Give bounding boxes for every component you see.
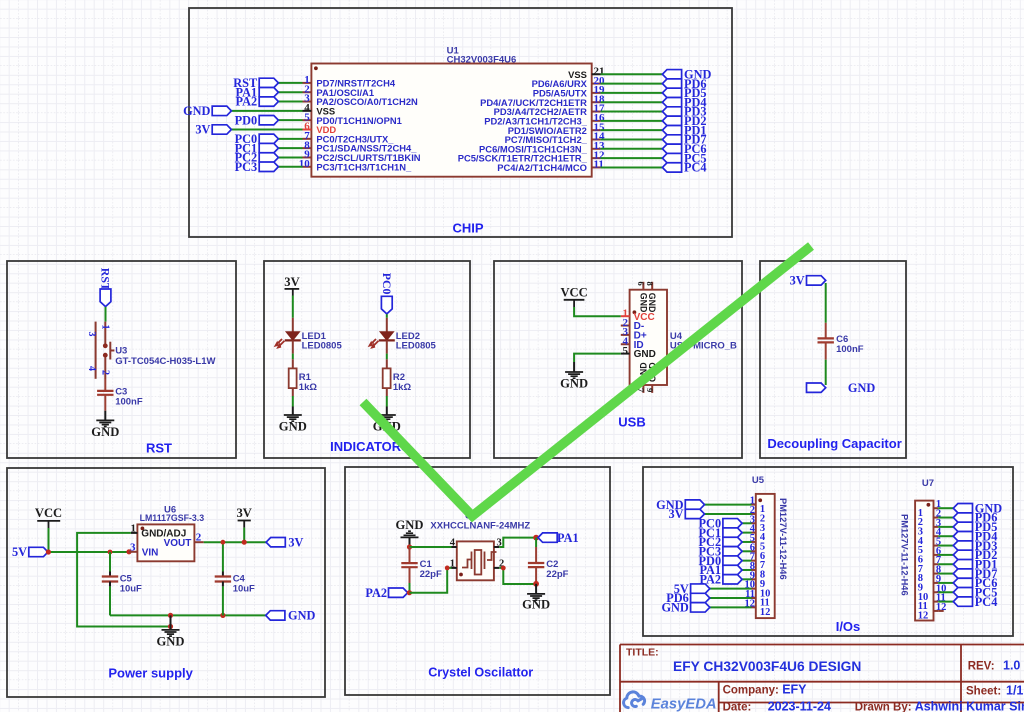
- junction: [46, 549, 51, 554]
- U7 pin 11: [934, 601, 939, 603]
- wire PC2 to U1 pin 9: [278, 156, 302, 158]
- Crystal Oscillator block frame: [345, 467, 610, 695]
- port flag GND: [266, 611, 285, 620]
- U7 pin 2: [934, 517, 939, 519]
- svg-text:PC3/T1CH3/T1CH1N_: PC3/T1CH3/T1CH1N_: [316, 161, 412, 172]
- U7 pin 7: [934, 563, 939, 565]
- junction pin2: [501, 566, 506, 571]
- U1 pin-1 marker dot: [314, 66, 318, 70]
- U4 bottom pin 9: [651, 385, 653, 393]
- svg-text:GND: GND: [183, 104, 210, 118]
- LED LED1 LED0805: [292, 318, 294, 332]
- svg-text:EFY CH32V003F4U6 DESIGN: EFY CH32V003F4U6 DESIGN: [673, 659, 861, 674]
- svg-text:GND: GND: [157, 635, 185, 649]
- op-amp U1 chip body CH32V003F4U6: [311, 64, 591, 177]
- connector U4 USB-MICRO_B body: [630, 290, 667, 385]
- port flag 5V: [691, 584, 710, 593]
- port flag GND: [685, 500, 704, 509]
- port flag PD6: [691, 593, 710, 602]
- svg-text:3V: 3V: [195, 123, 210, 137]
- wire VOUT rail: [204, 541, 266, 543]
- svg-text:GND: GND: [647, 293, 657, 313]
- svg-text:4: 4: [86, 366, 97, 371]
- wire C3 to ground: [104, 395, 106, 411]
- title block border: [620, 645, 1024, 713]
- U5 pin 2: [752, 513, 756, 515]
- wire GND to U5 pin 1: [705, 504, 752, 506]
- svg-text:LM1117GSF-3.3: LM1117GSF-3.3: [140, 513, 205, 523]
- wire U7 pin 4 to PD4: [938, 535, 953, 537]
- U4 top pin 8: [651, 282, 653, 290]
- wire U1 pin 18 to PD4: [601, 101, 663, 103]
- wire PA2 to U1 pin 3: [278, 101, 302, 103]
- wire PC1 to U1 pin 8: [278, 147, 302, 149]
- capacitor C5 10uF: [109, 552, 111, 572]
- svg-text:1.0: 1.0: [1003, 659, 1020, 673]
- port flag GND: [691, 603, 710, 612]
- U1 pin 4 VSS: [303, 110, 312, 112]
- svg-text:Crystel Oscilattor: Crystel Oscilattor: [428, 665, 533, 679]
- U1 pin 13 PC6/MOSI/T1CH1CH3N_: [592, 148, 601, 150]
- U1 pin 20 PD6/A6/URX: [592, 83, 601, 85]
- U7 pin 9: [934, 582, 939, 584]
- svg-text:10uF: 10uF: [233, 584, 255, 595]
- wire 3V to U1 pin 6: [231, 129, 302, 131]
- U1 pin 12 PC5/SCK/T1ETR/T2CH1ETR_: [592, 157, 601, 159]
- U5 pin 8: [752, 569, 756, 571]
- wire U7 pin 5 to PD3: [938, 545, 953, 547]
- capacitor C1 22pF: [409, 547, 411, 563]
- port flag PC2: [723, 537, 742, 546]
- U5 pin 9: [752, 578, 756, 580]
- svg-text:Sheet:: Sheet:: [966, 686, 1001, 698]
- U1 pin 16 PD2/A3/T1CH1/T2CH3_: [592, 120, 601, 122]
- wire PD6 to U5 pin 11: [710, 597, 752, 599]
- port flag PC2: [259, 153, 278, 162]
- svg-text:22pF: 22pF: [420, 569, 442, 580]
- svg-text:LED0805: LED0805: [396, 341, 437, 352]
- wire R2 to ground: [386, 388, 388, 396]
- wire U6 pin1 to ground rail: [77, 533, 170, 627]
- wire 5V to U6 VIN: [48, 551, 129, 553]
- wire U2 pin 2 to C2/GND: [499, 568, 536, 584]
- ground: [96, 420, 114, 426]
- wire GND to U5 pin 12: [710, 606, 752, 608]
- wire PC0 to U1 pin 7: [278, 138, 302, 140]
- port flag PC0: [259, 134, 278, 143]
- U7 pin 12: [934, 610, 939, 612]
- wire VCC to U4 pin 1: [574, 307, 621, 316]
- svg-text:2: 2: [99, 370, 110, 375]
- svg-text:GND: GND: [279, 420, 307, 434]
- port flag PA2: [389, 588, 408, 597]
- port flag PC0: [723, 519, 742, 528]
- U1 pin 6 VDD: [303, 129, 312, 131]
- U7 pin 1: [934, 507, 939, 509]
- port flag PC5: [953, 588, 972, 597]
- wire PC2 to U5 pin 5: [742, 541, 751, 543]
- svg-text:GND: GND: [560, 377, 588, 391]
- U2 pin 2: [494, 567, 499, 569]
- LED LED2 LED0805: [386, 318, 388, 332]
- port flag GND: [212, 106, 231, 115]
- port flag PD7: [953, 569, 972, 578]
- svg-text:1: 1: [99, 325, 110, 330]
- svg-text:PC4/A2/T1CH4/MCO: PC4/A2/T1CH4/MCO: [497, 162, 587, 173]
- port flag PD0: [259, 115, 278, 124]
- wire U1 pin 15 to PD1: [601, 129, 663, 131]
- port flag PA2: [259, 97, 278, 106]
- port flag PC1: [723, 528, 742, 537]
- crystal U2 XXHCCLNANF-24MHZ body: [457, 541, 494, 580]
- port flag PD5: [953, 522, 972, 531]
- U6 pin 3 VIN: [129, 551, 137, 553]
- wire U2 pin 3 to PA1: [499, 538, 536, 547]
- U1 pin 7 PC0/T2CH3/UTX_: [303, 138, 312, 140]
- wire U7 pin 1 to GND: [938, 507, 953, 509]
- capacitor C4 10uF: [222, 542, 224, 571]
- svg-text:VCC: VCC: [35, 506, 62, 520]
- op-amp U6 LM1117GSF-3.3: [137, 524, 194, 561]
- port flag 3V: [212, 125, 231, 134]
- port flag 3V: [685, 509, 704, 518]
- U2 pin 1: [452, 567, 457, 569]
- svg-text:PM127V-11-12-H46: PM127V-11-12-H46: [778, 498, 788, 580]
- svg-text:Drawn By:: Drawn By:: [855, 701, 912, 712]
- U7 pin 8: [934, 573, 939, 575]
- svg-text:5: 5: [623, 345, 629, 357]
- svg-text:3V: 3V: [790, 274, 805, 288]
- port flag PD1: [953, 560, 972, 569]
- port flag GND: [807, 383, 826, 392]
- svg-text:RST: RST: [146, 441, 172, 456]
- capacitor C2 22pF: [535, 538, 537, 547]
- U1 pin 14 PC7/MISO/T1CH2_: [592, 138, 601, 140]
- wire U1 pin 14 to PD7: [601, 138, 663, 140]
- wire ground rail: [110, 614, 266, 616]
- wire U7 pin 7 to PD1: [938, 563, 953, 565]
- U4 bottom pin 7: [642, 385, 644, 393]
- U7 pin 12 stub: [938, 610, 944, 612]
- svg-text:RST: RST: [99, 268, 113, 291]
- port flag 3V: [266, 538, 285, 547]
- port flag PA1: [723, 565, 742, 574]
- U1 pin 5 PD0/T1CH1N/OPN1: [303, 119, 312, 121]
- svg-text:22pF: 22pF: [546, 569, 568, 580]
- junction rail-C4: [220, 613, 225, 618]
- svg-text:USB: USB: [618, 415, 645, 430]
- port flag PC1: [259, 143, 278, 152]
- U1 pin 17 PD3/A4/T2CH2/AETR: [592, 111, 601, 113]
- wire U1 pin 16 to PD2: [601, 120, 663, 122]
- svg-text:11: 11: [594, 159, 604, 171]
- svg-text:1: 1: [131, 522, 137, 534]
- resistor R2 1k: [383, 368, 391, 388]
- svg-text:2023-11-24: 2023-11-24: [768, 699, 831, 712]
- U1 pin 3 PA2/OSCO/A0/T1CH2N: [303, 101, 312, 103]
- svg-text:VCC: VCC: [560, 285, 587, 299]
- port flag PD3: [953, 541, 972, 550]
- I/Os block frame: [643, 467, 1013, 636]
- U7 pin 6: [934, 554, 939, 556]
- port flag PC3: [259, 162, 278, 171]
- svg-text:PD0: PD0: [235, 113, 258, 127]
- svg-text:12: 12: [760, 607, 771, 618]
- svg-text:PC4: PC4: [684, 161, 707, 175]
- svg-text:GND: GND: [91, 425, 119, 439]
- wire U7 pin 10 to PC5: [938, 591, 953, 593]
- port flag PD2: [953, 550, 972, 559]
- port flag PA1: [538, 533, 557, 542]
- wire C6 to GND flag: [825, 342, 827, 359]
- wire U7 pin 2 to PD6: [938, 517, 953, 519]
- U2 crystal glyph: [462, 552, 497, 570]
- svg-text:GT-TC054C-H035-L1W: GT-TC054C-H035-L1W: [115, 356, 215, 367]
- svg-text:I/Os: I/Os: [836, 619, 861, 634]
- resistor R1 1k: [289, 368, 297, 388]
- port flag RST: [259, 78, 278, 87]
- svg-text:8: 8: [645, 282, 655, 286]
- wire U1 pin 19 to PD5: [601, 92, 663, 94]
- port flag PC4: [662, 163, 681, 172]
- svg-text:100nF: 100nF: [115, 397, 143, 408]
- svg-text:PC4: PC4: [975, 595, 998, 609]
- capacitor C6 100nF: [818, 337, 834, 339]
- svg-text:GND: GND: [638, 293, 648, 313]
- U6 pin 2 VOUT: [194, 541, 203, 543]
- port flag PD6: [662, 79, 681, 88]
- svg-text:GND: GND: [522, 598, 550, 612]
- svg-text:3V: 3V: [236, 506, 251, 520]
- ground: [535, 584, 537, 594]
- svg-text:PM127V-11-12-H46: PM127V-11-12-H46: [899, 514, 909, 596]
- svg-text:3: 3: [86, 332, 97, 337]
- wire PA1 to U1 pin 2: [278, 91, 302, 93]
- U1 pin 2 PA1/OSCI/A1: [303, 91, 312, 93]
- svg-text:EasyEDA: EasyEDA: [651, 697, 717, 712]
- Decoupling Capacitor block frame: [760, 261, 906, 458]
- wire U7 pin 11 to PC4: [938, 601, 953, 603]
- port flag PD7: [662, 135, 681, 144]
- svg-text:100nF: 100nF: [836, 344, 864, 355]
- wire U1 pin 20 to PD6: [601, 83, 663, 85]
- wire U7 pin 6 to PD2: [938, 554, 953, 556]
- U4 pin 4 ID: [621, 343, 630, 345]
- svg-text:VIN: VIN: [142, 548, 159, 559]
- port flag PD0: [723, 556, 742, 565]
- junction PA2-C1: [407, 590, 412, 595]
- wire PC3 to U5 pin 6: [742, 550, 751, 552]
- Power supply block frame: [7, 468, 325, 697]
- junction pin1: [445, 566, 450, 571]
- wire GND to U1 pin 4: [231, 110, 302, 112]
- transistor U3 push button GT-TC054C-H035-L1W: [104, 322, 106, 344]
- INDICATORS block frame: [264, 261, 470, 458]
- U5 pin 11: [752, 597, 756, 599]
- wire RST to U1 pin 1: [278, 82, 302, 84]
- svg-text:U7: U7: [922, 478, 934, 489]
- U4 pin 2 D-: [621, 325, 630, 327]
- svg-text:1kΩ: 1kΩ: [299, 382, 318, 393]
- capacitor C3 100nF: [97, 390, 113, 392]
- port flag PC6: [662, 144, 681, 153]
- wire PC0 to U5 pin 3: [742, 522, 751, 524]
- wire U7 pin 8 to PD7: [938, 573, 953, 575]
- port flag PD6: [953, 513, 972, 522]
- svg-text:9: 9: [645, 388, 655, 392]
- svg-text:10uF: 10uF: [120, 584, 142, 595]
- ground: [170, 615, 172, 630]
- svg-text:CHIP: CHIP: [452, 221, 483, 236]
- svg-text:1/1: 1/1: [1006, 684, 1023, 698]
- port flag PC4: [953, 597, 972, 606]
- wire 3V to U5 pin 2: [705, 513, 752, 515]
- junction C4 top: [221, 540, 226, 545]
- U5 pin 5: [752, 541, 756, 543]
- wire 3V to LED1: [292, 296, 294, 318]
- svg-text:XXHCCLNANF-24MHZ: XXHCCLNANF-24MHZ: [430, 521, 530, 532]
- U7 pin 5: [934, 545, 939, 547]
- svg-text:Date:: Date:: [723, 701, 752, 712]
- port flag PD4: [953, 532, 972, 541]
- wire PC3 to U1 pin 10: [278, 166, 302, 168]
- svg-text:PC0: PC0: [380, 273, 394, 295]
- wire PD0 to U5 pin 7: [742, 560, 751, 562]
- wire R1 to ground: [292, 388, 294, 396]
- svg-text:3V: 3V: [668, 507, 683, 521]
- U5 pin 7: [752, 560, 756, 562]
- U4 top pin 6: [642, 282, 644, 290]
- U4 pin 1 VCC: [621, 315, 630, 317]
- U1 pin 21 VSS: [592, 73, 601, 75]
- U2 pin 3: [494, 546, 499, 548]
- U1 pin 9 PC2/SCL/URTS/T1BKIN: [303, 156, 312, 158]
- svg-text:GND: GND: [661, 601, 688, 615]
- port flag GND: [953, 504, 972, 513]
- svg-text:5V: 5V: [12, 545, 27, 559]
- U7 pin 3: [934, 526, 939, 528]
- svg-text:GND: GND: [848, 381, 875, 395]
- U1 pin 11 PC4/A2/T1CH4/MCO: [592, 166, 601, 168]
- USB block frame: [494, 261, 742, 458]
- svg-text:GND: GND: [634, 349, 656, 360]
- EasyEDA logo cloud: [624, 692, 645, 708]
- junction C5 tap: [108, 550, 113, 555]
- svg-text:2: 2: [196, 532, 202, 544]
- junction gnd stem: [168, 624, 173, 629]
- U4 pin 3 D+: [621, 334, 630, 336]
- U1 pin 15 PD1/SWIO/AETR2: [592, 129, 601, 131]
- U5 pin 10: [752, 588, 756, 590]
- wire VCC stem: [48, 528, 50, 552]
- wire U1 pin 17 to PD3: [601, 111, 663, 113]
- wire U1 pin 11 to PC4: [601, 166, 663, 168]
- port flag 5V: [29, 547, 48, 556]
- svg-text:Ashwini Kumar Sinha: Ashwini Kumar Sinha: [915, 699, 1024, 712]
- svg-text:4: 4: [450, 538, 456, 549]
- wire U4 pin 5 to ground: [574, 354, 621, 362]
- svg-text:GND: GND: [288, 609, 315, 623]
- U1 pin 19 PD5/A5/UTX: [592, 92, 601, 94]
- junction VIN: [126, 549, 131, 554]
- U4 pin 5 GND: [621, 353, 630, 355]
- svg-text:1kΩ: 1kΩ: [393, 382, 412, 393]
- svg-text:10: 10: [299, 158, 311, 170]
- CHIP block frame: [189, 8, 732, 237]
- port flag PD3: [662, 107, 681, 116]
- wire PA2 to U5 pin 9: [742, 578, 751, 580]
- svg-text:Decoupling Capacitor: Decoupling Capacitor: [767, 436, 901, 451]
- junction PA1: [533, 535, 539, 541]
- svg-text:PA1: PA1: [557, 531, 579, 545]
- wire 5V to U5 pin 10: [710, 588, 752, 590]
- RST block frame: [7, 261, 236, 458]
- U1 pin 1 PD7/NRST/T2CH4: [303, 82, 312, 84]
- U6 pin 1 GND/ADJ: [131, 532, 138, 534]
- U1 pin 8 PC1/SDA/NSS/T2CH4_: [303, 147, 312, 149]
- svg-text:6: 6: [636, 282, 646, 286]
- green checkmark overlay: [363, 246, 811, 516]
- wire PA2 to U2 pin 1: [409, 568, 451, 593]
- ground: [284, 415, 302, 421]
- svg-text:LED0805: LED0805: [302, 341, 343, 352]
- svg-text:GND: GND: [396, 518, 424, 532]
- wire U1 pin 12 to PC5: [601, 157, 663, 159]
- ground: [565, 372, 583, 378]
- wire GND to U2 pin 4: [410, 546, 452, 548]
- svg-text:U5: U5: [752, 475, 765, 486]
- U5 pin 4: [752, 532, 756, 534]
- wire U3 to C3: [104, 379, 106, 391]
- wire 3V to C6: [825, 283, 827, 323]
- port flag PA1: [259, 88, 278, 97]
- svg-text:Power supply: Power supply: [108, 666, 193, 681]
- U2 pin 4: [452, 546, 457, 548]
- wire U7 pin 3 to PD5: [938, 526, 953, 528]
- svg-text:3V: 3V: [288, 535, 303, 549]
- port flag GND: [662, 70, 681, 79]
- svg-text:PC3: PC3: [235, 160, 258, 174]
- ground: [378, 415, 396, 421]
- junction 3V stem: [242, 540, 247, 545]
- junction GND-C1: [407, 544, 412, 549]
- svg-text:CH32V003F4U6: CH32V003F4U6: [447, 54, 517, 65]
- U1 pin 10 PC3/T1CH3/T1CH1N_: [303, 166, 312, 168]
- U7 pin 10: [934, 591, 939, 593]
- wire U7 pin 9 to PC6: [938, 582, 953, 584]
- svg-text:EFY: EFY: [782, 683, 807, 697]
- junction C2-GND: [533, 581, 539, 587]
- svg-text:PA2: PA2: [236, 95, 258, 109]
- port flag PD5: [662, 88, 681, 97]
- wire U1 pin 21 to GND: [601, 73, 663, 75]
- wire LED1 to R1: [292, 354, 294, 360]
- U4 pin-1 marker dot: [633, 310, 637, 314]
- junction rail-gnd: [168, 613, 173, 618]
- svg-text:VOUT: VOUT: [164, 538, 192, 549]
- U7 pin 4: [934, 535, 939, 537]
- port flag PD2: [662, 116, 681, 125]
- port flag PC3: [723, 547, 742, 556]
- port flag PC6: [953, 578, 972, 587]
- U1 pin 18 PD4/A7/UCK/T2CH1ETR: [592, 101, 601, 103]
- svg-text:3V: 3V: [284, 275, 299, 289]
- port flag 3V: [807, 276, 826, 285]
- svg-text:REV:: REV:: [968, 661, 995, 673]
- wire PC1 to U5 pin 4: [742, 532, 751, 534]
- svg-text:12: 12: [918, 611, 929, 622]
- port flag PD1: [662, 125, 681, 134]
